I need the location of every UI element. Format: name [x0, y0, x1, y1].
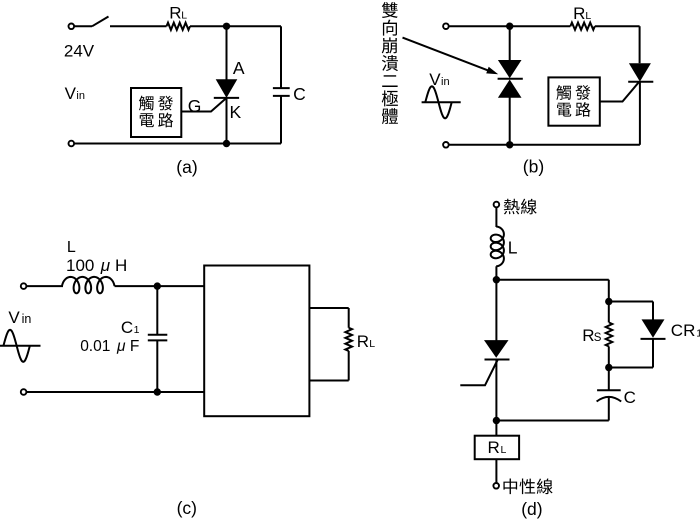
node junction Rs bottom (d) [605, 364, 612, 371]
DIAC D1 upper triangle [498, 60, 522, 78]
wire [190, 25, 281, 27]
resistor RL (b) [570, 23, 594, 30]
wire [156, 286, 158, 335]
wire right bottom (c) [310, 380, 349, 382]
wire [652, 302, 654, 320]
svg-text:24V: 24V [64, 41, 95, 60]
wire [280, 96, 282, 144]
svg-text:in: in [22, 312, 32, 326]
capacitor C (a) plates [273, 87, 290, 89]
terminal neutral line (d) [493, 483, 499, 489]
wire [608, 397, 610, 421]
SCR Q1 (d) triangle [484, 340, 509, 358]
Vin sine wave source (b) [422, 101, 461, 103]
svg-text:G: G [188, 96, 202, 116]
svg-text:K: K [230, 102, 242, 122]
terminal bottom-left (b) [443, 142, 449, 148]
trigger circuit box U1 (a) [131, 88, 181, 137]
wire [495, 360, 497, 436]
node junction top (c) [154, 282, 161, 289]
annotation arrow to DIAC [403, 38, 491, 72]
svg-text:100: 100 [66, 256, 94, 275]
resistor Rs (d) [606, 323, 613, 347]
SCR Q1 (a) cathode bar [214, 97, 239, 99]
wire [509, 26, 511, 60]
node junction A (d) [493, 276, 500, 283]
wire [652, 339, 654, 368]
wire right side (b) [639, 26, 641, 63]
svg-text:C: C [293, 84, 306, 104]
SCR Q1 (b) cathode bar [628, 81, 653, 83]
svg-text:V: V [65, 84, 77, 103]
terminal top-left (c) [21, 283, 27, 289]
svg-text:L: L [369, 338, 375, 350]
resistor RL (c) [345, 328, 352, 351]
terminal top-left (a) [69, 24, 75, 30]
svg-text:R: R [357, 332, 369, 351]
wire [496, 279, 608, 281]
SCR gate lead (b) [600, 82, 639, 101]
svg-text:0.01: 0.01 [80, 338, 110, 355]
Vin sine wave source (c) [0, 345, 41, 347]
wire [595, 25, 640, 27]
wire [609, 367, 653, 369]
node junction top (a) [223, 23, 230, 30]
wire [496, 420, 608, 422]
label hot line [504, 199, 520, 215]
node junction Rs top (d) [605, 298, 612, 305]
SCR Q1 (a) triangle [216, 79, 238, 98]
svg-text:A: A [233, 58, 245, 78]
wire [608, 368, 610, 391]
capacitor C (d) straight plate [597, 389, 621, 391]
svg-text:in: in [76, 90, 85, 102]
terminal bottom-left (c) [21, 389, 27, 395]
svg-text:R: R [488, 438, 500, 457]
svg-text:(d): (d) [521, 499, 542, 519]
wire top (b) [449, 25, 570, 27]
wire bottom (b) [449, 144, 640, 146]
terminal bottom-left (a) [69, 141, 75, 147]
inductor L (c) [62, 277, 115, 293]
wire [608, 302, 610, 323]
svg-text:S: S [594, 332, 602, 344]
svg-text:L: L [501, 444, 507, 456]
svg-text:1: 1 [134, 324, 140, 336]
svg-text:F: F [130, 338, 139, 355]
svg-text:in: in [441, 76, 450, 88]
svg-text:(b): (b) [523, 156, 544, 176]
wire [495, 266, 497, 279]
wire [115, 285, 205, 287]
label neutral line [503, 479, 517, 495]
svg-text:C: C [624, 388, 636, 407]
label trigger circuit text (b) [556, 85, 571, 100]
wire [608, 280, 610, 302]
wire [226, 26, 228, 79]
node junction bottom (a) [223, 140, 230, 147]
node junction bottom (b) [506, 141, 513, 148]
DIAC D1 lower triangle [498, 80, 522, 98]
svg-text:H: H [115, 256, 127, 275]
SCR gate lead (d) [460, 360, 498, 386]
wire bottom (c) [27, 391, 204, 393]
wire [226, 98, 228, 144]
wire [495, 459, 497, 483]
svg-text:μ: μ [100, 256, 111, 275]
SCR Q1 (d) anode wire [495, 280, 497, 341]
trigger circuit box U1 (b) [548, 77, 599, 125]
svg-text:(a): (a) [176, 157, 197, 177]
label trigger circuit text (a) [139, 96, 154, 111]
svg-text:L: L [181, 9, 187, 21]
diode CR1 triangle [642, 319, 665, 337]
SCR Q1 (b) triangle [629, 63, 651, 81]
svg-text:L: L [67, 239, 76, 256]
svg-text:C: C [121, 318, 133, 337]
wire [280, 26, 282, 88]
DIAC D1 middle bar [498, 78, 523, 80]
svg-text:R: R [169, 3, 181, 22]
node junction bottom (c) [154, 388, 161, 395]
wire [609, 301, 653, 303]
wire [495, 208, 497, 228]
wire [639, 82, 641, 145]
svg-text:1: 1 [696, 327, 700, 339]
node junction top (b) [506, 23, 513, 30]
wire [110, 25, 167, 27]
inductor L (d) [491, 227, 504, 267]
svg-text:R: R [582, 326, 594, 345]
switch S1 arm [92, 17, 109, 27]
diode CR1 cathode bar [641, 338, 666, 340]
capacitor C (d) curved plate [597, 397, 622, 402]
label bidirectional breakdown diode (vertical text) [382, 2, 398, 18]
SCR Q1 (d) cathode bar [485, 359, 510, 361]
svg-text:R: R [573, 4, 585, 23]
svg-text:(c): (c) [177, 498, 197, 518]
node junction B (d) [493, 417, 500, 424]
svg-text:μ: μ [116, 338, 126, 355]
wire [608, 347, 610, 368]
capacitor C1 plates [148, 334, 168, 336]
wire [156, 340, 158, 392]
resistor RL (a) [167, 23, 191, 30]
terminal top-left (b) [443, 23, 449, 29]
wire [509, 97, 511, 144]
wire bottom (a) [74, 143, 281, 145]
load box RL (d) [475, 436, 519, 460]
svg-text:L: L [585, 10, 591, 22]
block box (c) [204, 266, 309, 417]
svg-text:L: L [508, 238, 518, 258]
wire [348, 351, 350, 381]
wire [27, 285, 63, 287]
terminal hot line (d) [494, 202, 500, 208]
wire [74, 25, 92, 27]
SCR gate lead (a) [181, 98, 226, 112]
svg-text:V: V [8, 308, 20, 327]
wire right top (c) [310, 307, 349, 309]
svg-text:CR: CR [671, 321, 696, 340]
wire [348, 308, 350, 328]
